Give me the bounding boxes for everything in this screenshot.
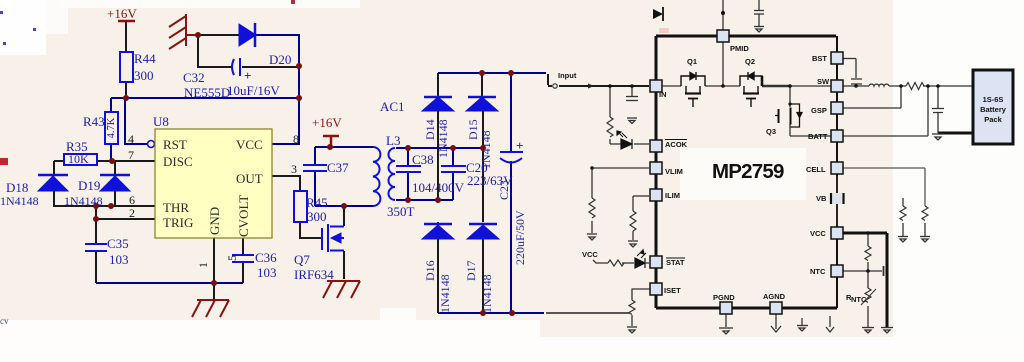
svg-text:NE555D: NE555D bbox=[184, 85, 230, 100]
svg-text:C36: C36 bbox=[255, 250, 277, 265]
svg-text:U8: U8 bbox=[153, 114, 169, 129]
svg-text:THR: THR bbox=[163, 200, 189, 215]
svg-text:103: 103 bbox=[109, 252, 129, 267]
svg-text:R43: R43 bbox=[83, 114, 105, 129]
svg-text:Q2: Q2 bbox=[745, 57, 755, 66]
svg-text:C37: C37 bbox=[327, 160, 349, 175]
svg-text:VB: VB bbox=[816, 194, 827, 203]
svg-text:SW: SW bbox=[817, 77, 830, 86]
svg-text:1: 1 bbox=[196, 262, 210, 268]
svg-text:D14: D14 bbox=[423, 119, 437, 140]
svg-text:1N4148: 1N4148 bbox=[64, 194, 103, 208]
svg-text:NTC: NTC bbox=[851, 295, 867, 304]
svg-text:CELL: CELL bbox=[806, 165, 826, 174]
svg-text:C35: C35 bbox=[107, 236, 129, 251]
svg-text:VCC: VCC bbox=[582, 250, 598, 259]
svg-text:Q1: Q1 bbox=[687, 57, 697, 66]
svg-text:Q3: Q3 bbox=[766, 127, 776, 136]
svg-text:Q7: Q7 bbox=[294, 252, 310, 267]
svg-text:1N4148: 1N4148 bbox=[436, 119, 450, 158]
svg-text:4.7K: 4.7K bbox=[106, 117, 117, 138]
svg-text:8: 8 bbox=[293, 132, 299, 146]
svg-text:D19: D19 bbox=[78, 178, 100, 193]
svg-text:VLIM: VLIM bbox=[665, 167, 683, 176]
svg-text:STAT: STAT bbox=[666, 258, 685, 267]
svg-text:D18: D18 bbox=[6, 180, 28, 195]
svg-text:+16V: +16V bbox=[312, 115, 342, 130]
svg-text:VCC: VCC bbox=[810, 229, 826, 238]
svg-text:RST: RST bbox=[163, 137, 187, 152]
svg-text:DISC: DISC bbox=[163, 154, 193, 169]
svg-text:1N4148: 1N4148 bbox=[438, 274, 452, 313]
svg-text:TRIG: TRIG bbox=[163, 215, 193, 230]
svg-text:+16V: +16V bbox=[107, 6, 137, 21]
svg-text:OUT: OUT bbox=[236, 171, 263, 186]
svg-text:AGND: AGND bbox=[763, 292, 786, 301]
svg-text:CVOLT: CVOLT bbox=[236, 195, 251, 237]
svg-text:D17: D17 bbox=[464, 260, 478, 281]
svg-text:1N4148: 1N4148 bbox=[479, 130, 493, 169]
svg-text:+: + bbox=[516, 138, 523, 153]
svg-text:NTC: NTC bbox=[810, 267, 826, 276]
svg-text:D16: D16 bbox=[423, 260, 437, 281]
svg-text:Input: Input bbox=[558, 71, 577, 80]
svg-text:IN: IN bbox=[659, 90, 667, 99]
svg-text:L3: L3 bbox=[386, 133, 400, 148]
svg-text:5: 5 bbox=[225, 255, 239, 261]
svg-text:ILIM: ILIM bbox=[665, 191, 680, 200]
svg-text:MP2759: MP2759 bbox=[712, 160, 784, 183]
svg-text:10uF/16V: 10uF/16V bbox=[227, 83, 280, 98]
svg-text:ISET: ISET bbox=[664, 286, 681, 295]
svg-text:+: + bbox=[244, 68, 251, 83]
svg-text:ACOK: ACOK bbox=[665, 140, 688, 149]
svg-text:1N4148: 1N4148 bbox=[0, 194, 39, 208]
svg-text:BATT: BATT bbox=[808, 132, 828, 141]
svg-text:220uF/50V: 220uF/50V bbox=[513, 210, 527, 265]
svg-text:300: 300 bbox=[307, 209, 327, 224]
svg-text:350T: 350T bbox=[387, 204, 415, 219]
svg-text:D15: D15 bbox=[466, 119, 480, 140]
svg-text:6: 6 bbox=[129, 193, 135, 207]
svg-text:Battery: Battery bbox=[980, 105, 1007, 114]
svg-text:10K: 10K bbox=[68, 152, 89, 166]
svg-text:C38: C38 bbox=[412, 152, 434, 167]
svg-text:7: 7 bbox=[128, 148, 134, 162]
svg-text:4: 4 bbox=[128, 132, 134, 146]
svg-text:103: 103 bbox=[257, 265, 277, 280]
svg-text:3: 3 bbox=[291, 162, 297, 176]
svg-text:IRF634: IRF634 bbox=[294, 267, 334, 282]
svg-text:2: 2 bbox=[129, 206, 135, 220]
svg-text:104/400V: 104/400V bbox=[412, 180, 465, 195]
svg-text:C32: C32 bbox=[183, 70, 205, 85]
svg-text:BST: BST bbox=[812, 54, 827, 63]
svg-text:R45: R45 bbox=[306, 195, 328, 210]
svg-text:300: 300 bbox=[134, 68, 154, 83]
svg-text:PGND: PGND bbox=[713, 293, 735, 302]
svg-text:PMID: PMID bbox=[730, 44, 749, 53]
svg-text:1S-6S: 1S-6S bbox=[983, 95, 1004, 104]
svg-text:GSP: GSP bbox=[811, 106, 827, 115]
svg-text:D20: D20 bbox=[269, 52, 291, 67]
svg-text:C23: C23 bbox=[497, 180, 511, 200]
svg-text:1N4148: 1N4148 bbox=[480, 274, 494, 313]
svg-text:AC1: AC1 bbox=[380, 99, 405, 114]
svg-text:VCC: VCC bbox=[236, 137, 263, 152]
svg-text:R44: R44 bbox=[134, 51, 156, 66]
svg-text:cv: cv bbox=[0, 316, 9, 326]
svg-text:Pack: Pack bbox=[984, 115, 1002, 124]
svg-text:GND: GND bbox=[207, 207, 222, 235]
